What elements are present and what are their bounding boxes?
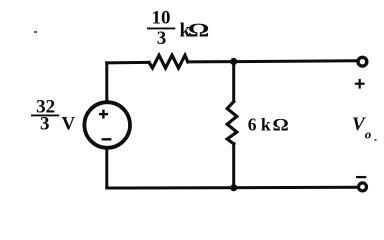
svg-text:10: 10 xyxy=(152,8,171,29)
svg-text:3: 3 xyxy=(157,28,167,49)
svg-text:Ω: Ω xyxy=(273,116,289,135)
svg-text:o: o xyxy=(365,126,372,141)
svg-text:6 k: 6 k xyxy=(248,114,271,134)
svg-text:3: 3 xyxy=(40,113,50,134)
svg-text:V: V xyxy=(62,113,76,134)
svg-text:Ω: Ω xyxy=(188,20,209,42)
